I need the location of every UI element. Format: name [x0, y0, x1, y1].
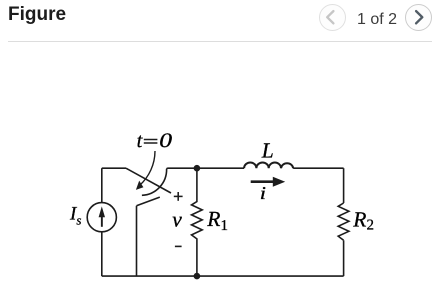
resistor R1 — [192, 168, 203, 276]
wire: top-left segment — [102, 167, 126, 169]
resistor R2 — [338, 203, 349, 240]
switch S (opens at t=0): blade — [126, 168, 171, 193]
svg-text:L: L — [261, 138, 274, 162]
svg-text:i: i — [260, 183, 266, 203]
svg-text:0: 0 — [159, 130, 172, 152]
inductor L — [244, 163, 293, 169]
header title — [8, 4, 66, 26]
wire: switch vertical down — [136, 206, 138, 276]
svg-text:Is: Is — [69, 203, 81, 227]
wire: right vertical below R2 — [343, 240, 345, 276]
node: top of R1 — [194, 165, 201, 172]
wire: top rail (resumed) to R1 node to inductor — [167, 167, 244, 170]
svg-text:t: t — [137, 130, 144, 152]
current i arrow — [251, 180, 274, 183]
current source Is — [87, 203, 116, 232]
node: bottom of R1 — [194, 273, 201, 280]
label + (v polarity) — [174, 192, 183, 201]
wire: left vertical lower (source branch) — [101, 232, 103, 276]
wire: bottom rail — [102, 275, 344, 277]
wire: left vertical upper (source branch) — [101, 168, 103, 203]
next button — [405, 4, 432, 31]
page count — [352, 11, 402, 29]
current source arrow — [99, 206, 105, 226]
switch swing arc — [142, 169, 167, 195]
switch fixed contact — [137, 197, 160, 206]
prev button (disabled) — [319, 4, 346, 31]
switch actuation arrow curve — [140, 151, 156, 186]
switch actuation arrowhead — [136, 181, 144, 190]
separator — [8, 41, 432, 42]
label - (v polarity) — [175, 245, 182, 247]
wire: right vertical above R2 — [343, 168, 345, 203]
svg-text:R1: R1 — [206, 207, 228, 234]
wire: top rail from inductor to right corner — [293, 167, 343, 169]
svg-text:v: v — [172, 208, 182, 232]
label t = 0 (switch time) — [137, 130, 172, 152]
svg-text:R2: R2 — [352, 207, 374, 233]
